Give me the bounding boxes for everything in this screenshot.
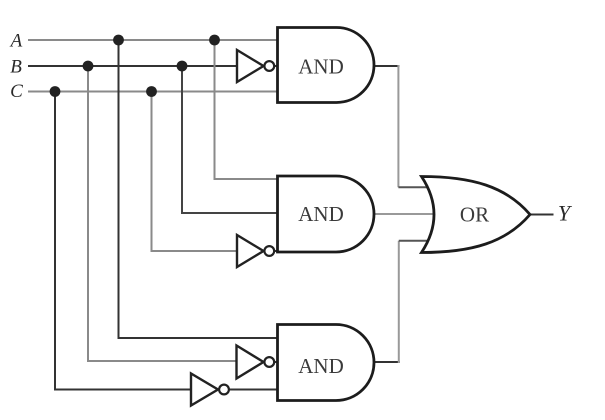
- AND gate 2: [278, 176, 375, 252]
- wire inverter U4 output to AND3: [229, 389, 279, 391]
- svg-text:OR: OR: [460, 203, 489, 227]
- wire inverter U3 output to AND3: [274, 361, 279, 363]
- svg-text:AND: AND: [298, 202, 344, 226]
- svg-text:C: C: [10, 81, 23, 102]
- node dot B2: [177, 61, 188, 72]
- inverter U4 (C input of AND3): [191, 374, 229, 406]
- svg-text:A: A: [9, 31, 23, 52]
- svg-text:AND: AND: [298, 354, 344, 378]
- wire A branch to AND2: [215, 40, 280, 179]
- wire AND1 output vertical drop: [397, 65, 399, 187]
- svg-text:B: B: [10, 56, 22, 77]
- AND gate 3: [278, 325, 375, 401]
- wire AND1 output into OR top input: [398, 186, 431, 188]
- inverter U1 (B input of AND1): [237, 50, 274, 82]
- wire C branch to inverter U4: [55, 92, 192, 390]
- OR gate: [422, 177, 531, 253]
- node dot C2: [146, 86, 157, 97]
- node dot A1: [113, 35, 124, 46]
- wire A branch to AND3: [119, 40, 280, 338]
- node dot C1: [50, 86, 61, 97]
- wire input B horizontal: [28, 65, 238, 67]
- wire B branch to AND2: [182, 66, 279, 213]
- svg-text:AND: AND: [298, 55, 344, 79]
- inverter U2 (C input of AND2): [237, 235, 274, 267]
- AND gate 1: [278, 28, 375, 103]
- node dot A2: [209, 35, 220, 46]
- wire input C horizontal: [28, 91, 279, 93]
- wire AND3 output into OR bottom input: [399, 240, 431, 242]
- wire B branch to inverter U3: [88, 66, 238, 361]
- wire C branch to inverter U2: [152, 92, 239, 252]
- wire input A horizontal: [28, 39, 279, 41]
- wire AND2 output into OR middle input: [374, 213, 436, 215]
- wire inverter U2 output to AND2: [274, 250, 279, 252]
- wire AND1 output horizontal: [374, 65, 399, 67]
- wire OR output to Y: [530, 214, 554, 216]
- inverter U3 (B input of AND3): [237, 346, 275, 379]
- wire AND3 output horizontal: [374, 361, 400, 363]
- node dot B1: [83, 61, 94, 72]
- wire AND3 output vertical rise: [398, 241, 400, 363]
- wire inverter U1 output to AND1: [274, 65, 279, 67]
